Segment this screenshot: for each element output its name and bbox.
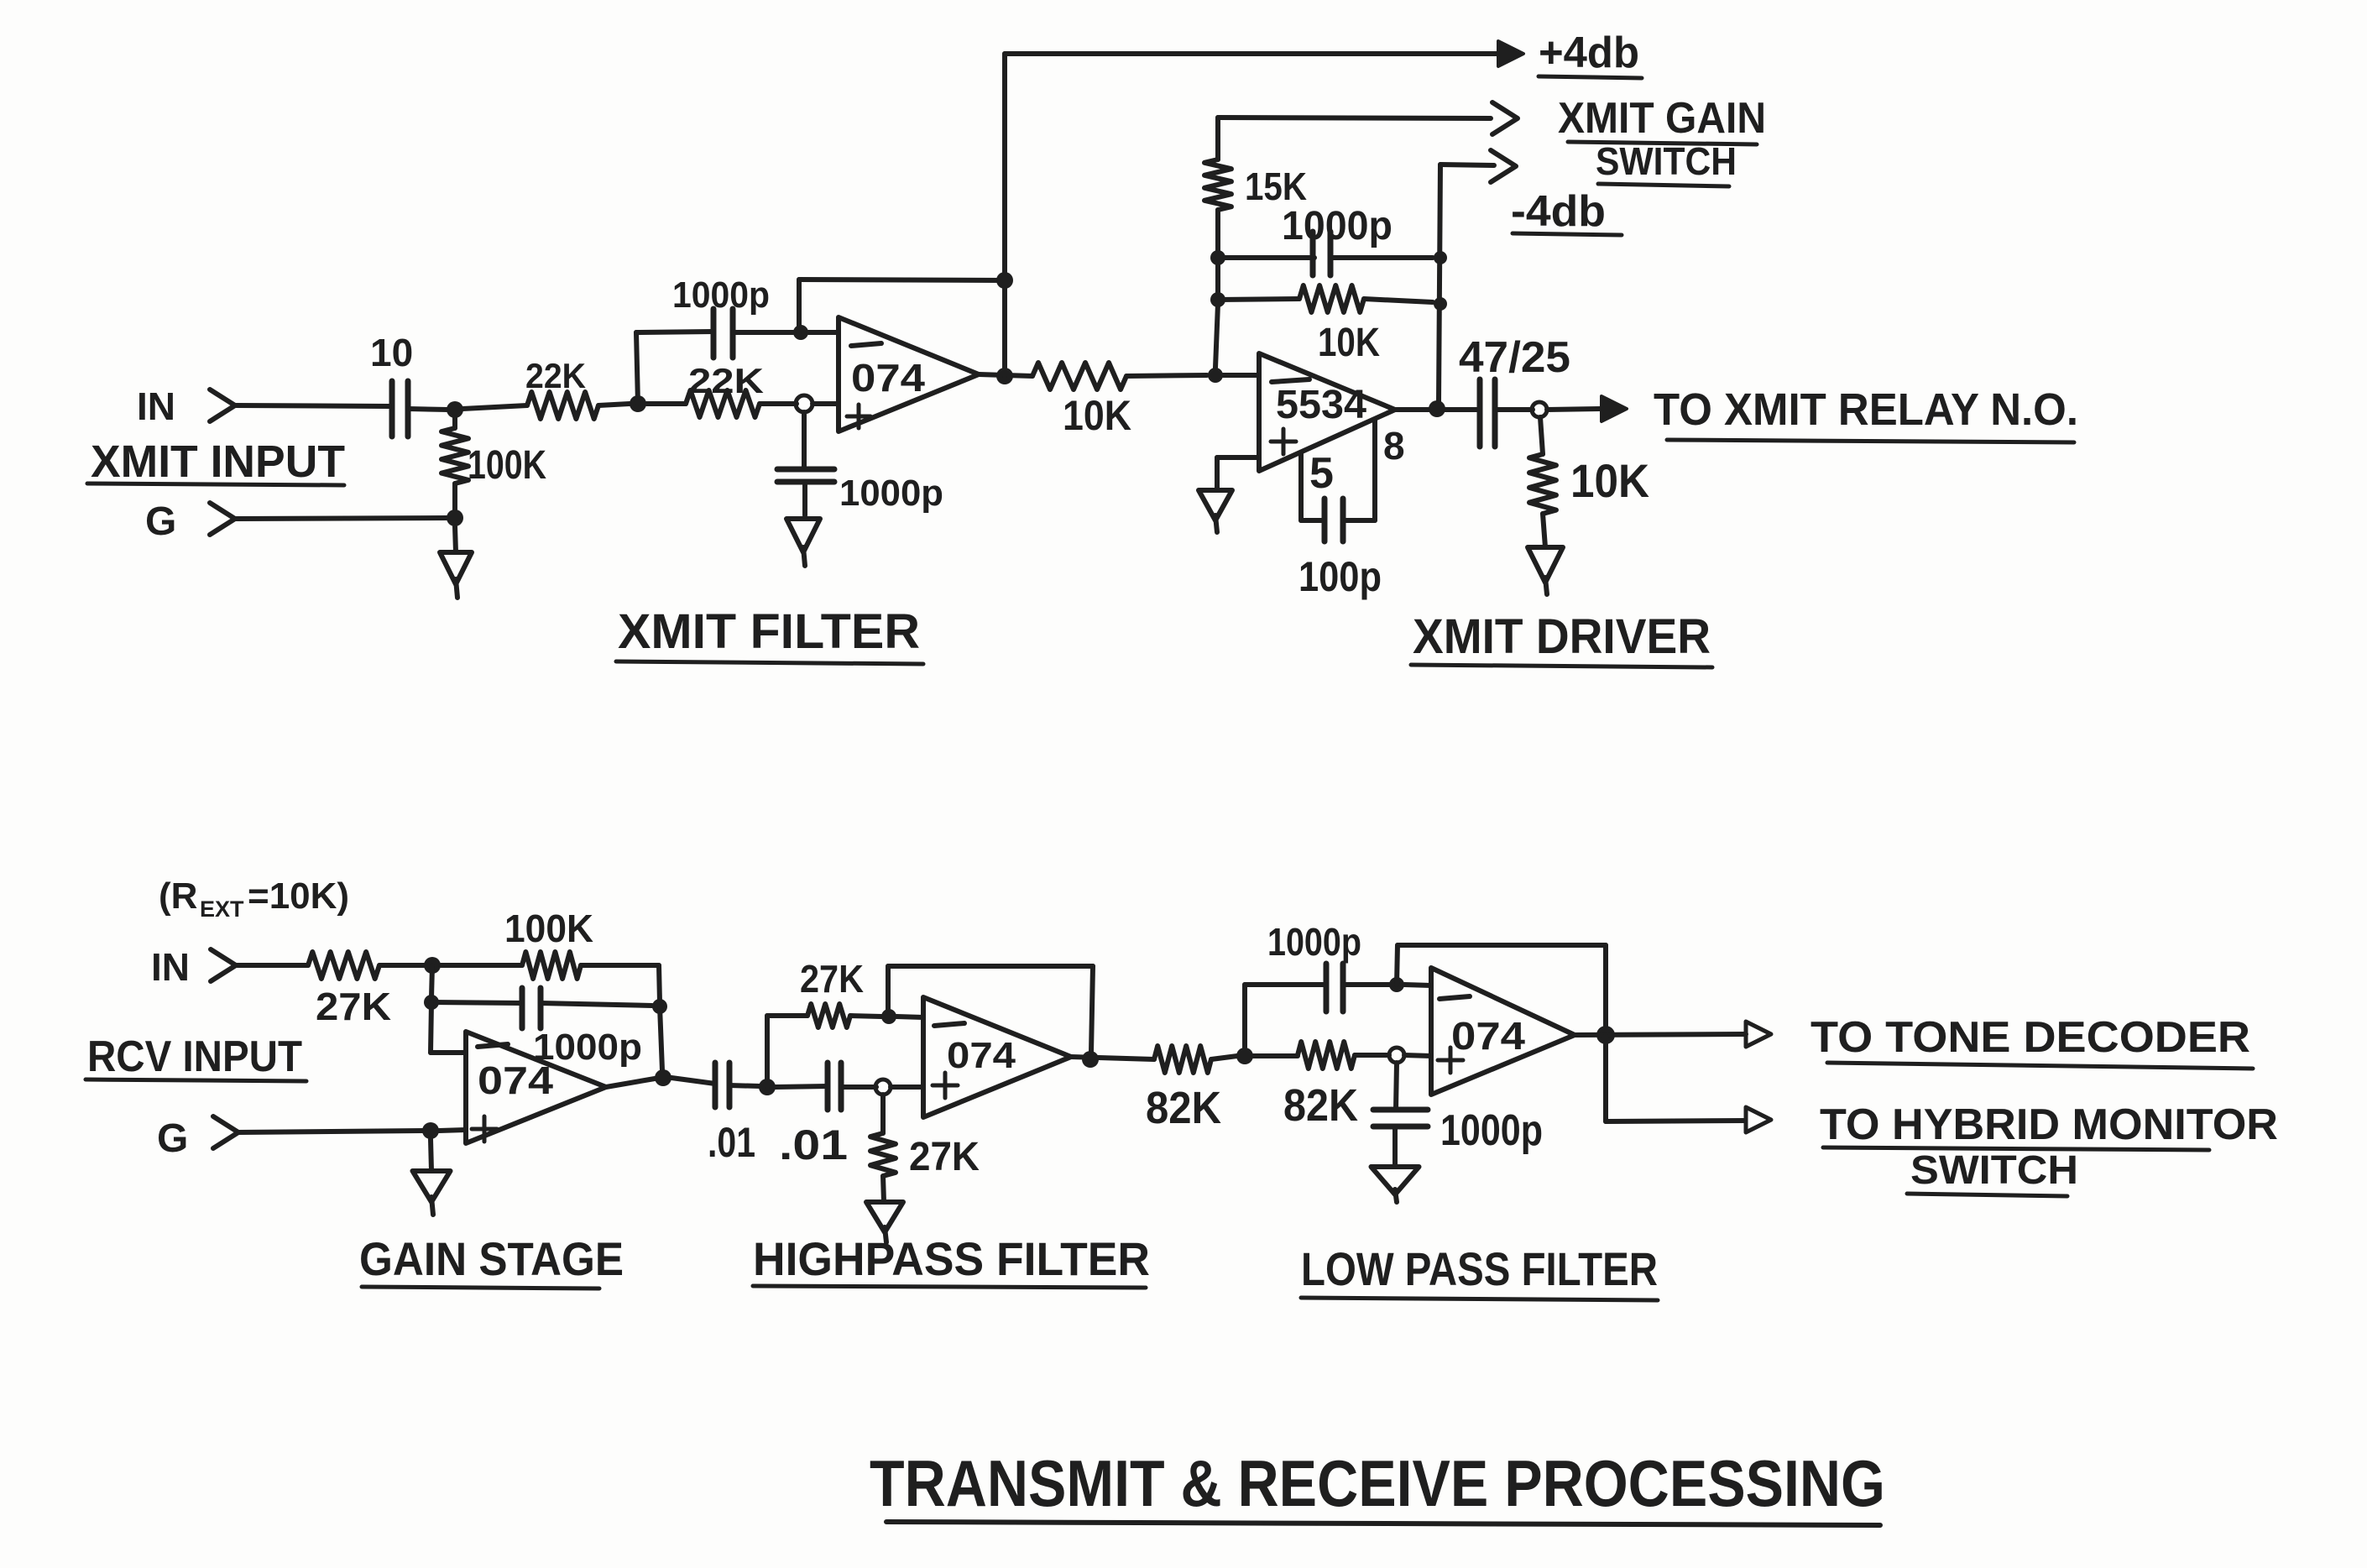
wire node AC down bbox=[1603, 1035, 1608, 1121]
wire node Y down to R10 bbox=[880, 1095, 886, 1133]
wire node R down to output bbox=[660, 1006, 662, 1070]
svg-text:27K: 27K bbox=[909, 1135, 980, 1179]
wire node G up (to R4/C4/R5) bbox=[1215, 304, 1218, 368]
resistor R11 82K bbox=[1154, 1046, 1211, 1073]
input arrow IN bbox=[210, 389, 235, 421]
wire node T down to U3 -in bbox=[431, 1002, 431, 1053]
wire to C10 bbox=[1245, 982, 1326, 987]
svg-text:8: 8 bbox=[1383, 424, 1405, 468]
title underline bbox=[886, 1522, 1880, 1525]
capacitor C2 1000p (feedback) bbox=[711, 309, 717, 358]
wire C8 to node V bbox=[729, 1085, 760, 1086]
input arrow IN (rcv) bbox=[211, 949, 236, 981]
wire fb top rail (U5) bbox=[1398, 943, 1606, 948]
wire R4 to node K bbox=[1364, 299, 1433, 302]
resistor R2b 100K (vertical) bbox=[442, 428, 468, 483]
node G (U2 - input junction) bbox=[1208, 368, 1223, 383]
wire C9 to node Y bbox=[841, 1085, 876, 1090]
wire node B up to C2 bbox=[636, 332, 638, 404]
resistor R9 27K (feedback) bbox=[807, 1004, 850, 1027]
svg-text:22K: 22K bbox=[525, 356, 586, 395]
ground (below node P) bbox=[440, 552, 472, 584]
resistor R5 15K (vertical) bbox=[1204, 159, 1231, 210]
node J (right fb rail / C4) bbox=[1434, 251, 1447, 264]
node Z (R11/R12/C10 junction) bbox=[1236, 1048, 1253, 1064]
wire R2 to node C bbox=[760, 401, 797, 406]
node A (junction C1/R1/R2-100K) bbox=[447, 401, 463, 418]
node X (U4 output) bbox=[1082, 1051, 1099, 1068]
wire C11 to ground bbox=[1393, 1129, 1398, 1167]
svg-text:10K: 10K bbox=[1570, 454, 1649, 507]
svg-text:TO HYBRID MONITOR: TO HYBRID MONITOR bbox=[1820, 1100, 2278, 1149]
node E (on U1 output riser) bbox=[996, 272, 1013, 289]
resistor R7 27K bbox=[308, 952, 379, 979]
ground (below node U) bbox=[413, 1171, 451, 1202]
U3 inverting input marker bbox=[478, 1044, 508, 1047]
wire to R9 bbox=[767, 1013, 807, 1018]
wire node C to U1 +in bbox=[813, 401, 839, 406]
wire R1 to node B bbox=[598, 404, 630, 405]
svg-text:XMIT GAIN: XMIT GAIN bbox=[1558, 94, 1766, 143]
svg-text:-4db: -4db bbox=[1511, 187, 1606, 236]
node T (C7 left) bbox=[424, 995, 439, 1010]
capacitor C10 1000p (U5 feedback) bbox=[1324, 964, 1330, 1011]
svg-text:15K: 15K bbox=[1245, 165, 1307, 208]
underline TO XMIT RELAY N.O. bbox=[1667, 440, 2074, 442]
svg-text:TO XMIT RELAY N.O.: TO XMIT RELAY N.O. bbox=[1654, 384, 2078, 435]
capacitor C4 1000p (U2 feedback) bbox=[1310, 232, 1316, 275]
underline SWITCH bbox=[1598, 184, 1729, 186]
svg-text:SWITCH: SWITCH bbox=[1910, 1148, 2078, 1193]
svg-text:(R: (R bbox=[159, 875, 197, 917]
svg-text:074: 074 bbox=[947, 1035, 1016, 1076]
arrow to -4db bbox=[1491, 150, 1516, 182]
wire node W up bbox=[886, 966, 891, 1017]
wire R7 to node Q bbox=[379, 963, 425, 968]
node U (U3 + input junction) bbox=[422, 1122, 439, 1139]
node Q (R7/R8/C7 junction) bbox=[424, 957, 441, 974]
wire C2 to node D bbox=[733, 330, 793, 335]
svg-text:EXT: EXT bbox=[200, 896, 244, 922]
capacitor C9 .01 (coupling) bbox=[825, 1063, 831, 1110]
node AB (U5 - input junction) bbox=[1389, 977, 1404, 992]
svg-text:1000p: 1000p bbox=[672, 274, 770, 316]
wire C10 to node AB bbox=[1343, 982, 1390, 987]
wire node N down to R6 bbox=[1540, 417, 1543, 454]
underline XMIT GAIN bbox=[1568, 142, 1757, 144]
svg-text:G: G bbox=[157, 1116, 188, 1161]
wire node I up to R5 bbox=[1215, 210, 1220, 250]
node Y (U4 + input junction) bbox=[875, 1079, 891, 1095]
underline TO HYBRID MONITOR bbox=[1823, 1147, 2209, 1150]
U5 inverting input marker bbox=[1440, 996, 1470, 999]
svg-text:XMIT FILTER: XMIT FILTER bbox=[618, 604, 920, 659]
node AC (U5 output) bbox=[1596, 1026, 1615, 1044]
svg-text:10K: 10K bbox=[1318, 321, 1380, 365]
wire IN to C1 bbox=[235, 405, 389, 406]
wire R11 to node Z bbox=[1211, 1056, 1237, 1059]
svg-text:SWITCH: SWITCH bbox=[1596, 139, 1737, 183]
svg-text:+4db: +4db bbox=[1539, 29, 1639, 77]
node B (junction R1/R2/C2) bbox=[630, 395, 646, 412]
svg-text:100K: 100K bbox=[468, 443, 546, 488]
svg-text:27K: 27K bbox=[316, 985, 391, 1028]
underline XMIT FILTER bbox=[616, 661, 923, 664]
svg-text:100K: 100K bbox=[504, 907, 593, 950]
wire right fb rail (vertical) bbox=[1439, 165, 1440, 402]
svg-text:5: 5 bbox=[1309, 449, 1334, 498]
wire fb top rail (U4) bbox=[888, 964, 1093, 969]
wire IN to R7 bbox=[236, 963, 308, 968]
ground (below R6) bbox=[1528, 547, 1563, 583]
wire +4db (horizontal) bbox=[1005, 51, 1502, 56]
node K (right fb rail / R4) bbox=[1434, 297, 1447, 311]
wire R2b to node P bbox=[452, 483, 457, 511]
wire to -4db arrow bbox=[1440, 165, 1494, 165]
wire node U to U3 +in bbox=[439, 1130, 466, 1131]
capacitor C11 1000p (to ground) bbox=[1373, 1107, 1428, 1113]
ground (U2 + input) bbox=[1199, 490, 1232, 520]
U2 pin 5 lead bbox=[1298, 452, 1304, 520]
arrow to XMIT GAIN SWITCH bbox=[1492, 102, 1518, 134]
arrow to hybrid monitor switch bbox=[1746, 1107, 1771, 1132]
op-amp U1 074 (XMIT filter) bbox=[839, 317, 979, 431]
wire U3 output bbox=[606, 1079, 655, 1087]
wire node AB to U5 -in bbox=[1404, 985, 1431, 985]
wire R6 to ground bbox=[1543, 514, 1545, 547]
ground (below C3) bbox=[786, 519, 820, 552]
wire fb right down (U5) bbox=[1603, 945, 1608, 1029]
svg-text:TO TONE DECODER: TO TONE DECODER bbox=[1811, 1013, 2250, 1062]
wire node Q down bbox=[431, 965, 432, 997]
wire C3 to ground bbox=[802, 485, 807, 515]
wire U2 +in to ground bbox=[1217, 455, 1259, 460]
node M (U2 out / fb rail) bbox=[1429, 400, 1445, 417]
wire node V up bbox=[765, 1016, 770, 1087]
U4 non-inverting marker + bbox=[933, 1084, 958, 1088]
underline XMIT INPUT bbox=[87, 483, 344, 485]
wire node A to R1 bbox=[462, 405, 527, 409]
node R (C7 right) bbox=[652, 999, 667, 1014]
capacitor C1 (10uF) bbox=[389, 381, 395, 436]
U1 inverting input marker bbox=[851, 343, 881, 346]
wire fb right down (U4) bbox=[1091, 966, 1093, 1053]
capacitor C3 1000p (to ground) bbox=[777, 467, 834, 473]
wire U4 output bbox=[1071, 1057, 1154, 1059]
resistor R10 27K (to ground) bbox=[870, 1133, 896, 1176]
node AA (U5 + input junction) bbox=[1389, 1048, 1404, 1063]
svg-text:1000p: 1000p bbox=[839, 473, 943, 514]
underline -4db bbox=[1513, 233, 1622, 235]
op-amp U2 5534 (XMIT driver) bbox=[1259, 353, 1395, 471]
U2 pin 8 lead bbox=[1372, 420, 1377, 520]
svg-text:HIGHPASS FILTER: HIGHPASS FILTER bbox=[753, 1232, 1150, 1285]
svg-text:.01: .01 bbox=[779, 1121, 848, 1168]
wire C6 to node N bbox=[1495, 407, 1533, 412]
svg-text:074: 074 bbox=[851, 356, 925, 400]
wire to XMIT GAIN SWITCH bbox=[1218, 118, 1491, 118]
node H (R4 left) bbox=[1210, 292, 1225, 307]
wire node N to relay arrow bbox=[1547, 409, 1600, 410]
svg-text:G: G bbox=[145, 499, 176, 544]
wire node A down to R2b bbox=[452, 417, 457, 428]
wire node V to C9 bbox=[776, 1086, 828, 1087]
node W (U4 - input junction) bbox=[881, 1009, 896, 1024]
underline +4db bbox=[1539, 76, 1642, 78]
wire G to node U bbox=[238, 1131, 423, 1132]
svg-text:=10K): =10K) bbox=[248, 875, 349, 917]
wire node Z up bbox=[1242, 985, 1247, 1048]
wire to C2 left plate bbox=[636, 332, 713, 332]
wire C1 to node A bbox=[408, 409, 448, 410]
wire node Z to R12 bbox=[1253, 1053, 1298, 1058]
capacitor C8 .01 (coupling) bbox=[713, 1063, 718, 1107]
svg-text:10: 10 bbox=[370, 331, 413, 374]
svg-text:1000p: 1000p bbox=[1440, 1106, 1543, 1155]
underline TO TONE DECODER bbox=[1827, 1063, 2253, 1069]
wire node H to R4 bbox=[1218, 299, 1299, 300]
svg-text:LOW PASS FILTER: LOW PASS FILTER bbox=[1301, 1242, 1658, 1295]
underline SWITCH (hybrid monitor) bbox=[1907, 1194, 2067, 1196]
capacitor C6 47/25 (output) bbox=[1477, 379, 1483, 447]
resistor R12 82K bbox=[1298, 1042, 1355, 1069]
svg-text:27K: 27K bbox=[800, 957, 864, 1001]
capacitor C5 100p (pins 5-8) bbox=[1322, 499, 1328, 541]
svg-text:RCV INPUT: RCV INPUT bbox=[87, 1032, 302, 1081]
svg-text:GAIN STAGE: GAIN STAGE bbox=[359, 1232, 624, 1285]
wire R9 to node W bbox=[850, 1016, 881, 1017]
arrow to XMIT relay bbox=[1602, 396, 1627, 421]
node D (U1 - input) bbox=[793, 325, 808, 340]
resistor R8 100K (feedback) bbox=[522, 952, 581, 979]
node I (C4 left) bbox=[1210, 250, 1225, 265]
wire node P to ground bbox=[455, 526, 456, 552]
svg-text:TRANSMIT & RECEIVE PROCESSING: TRANSMIT & RECEIVE PROCESSING bbox=[870, 1446, 1885, 1520]
wire G to node P bbox=[235, 518, 447, 519]
wire node G to U2 -in bbox=[1223, 373, 1259, 378]
op-amp U4 074 (high pass filter) bbox=[923, 997, 1071, 1117]
node S (U3 output) bbox=[655, 1069, 671, 1086]
wire node U down bbox=[431, 1139, 431, 1171]
wire R12 to node AA bbox=[1355, 1053, 1389, 1058]
wire U5 output to arrow bbox=[1575, 1034, 1746, 1035]
wire to hybrid monitor arrow bbox=[1606, 1121, 1744, 1121]
wire R5 up to gain switch line bbox=[1215, 118, 1220, 159]
input arrow G bbox=[210, 503, 235, 535]
svg-text:074: 074 bbox=[478, 1058, 553, 1102]
node V (C8/C9/R9 junction) bbox=[759, 1079, 776, 1095]
underline GAIN STAGE bbox=[362, 1287, 599, 1288]
wire R10 to ground bbox=[883, 1176, 884, 1202]
wire node B to R2 bbox=[646, 401, 686, 406]
node F (U1 out / riser) bbox=[996, 368, 1013, 384]
resistor R4 10K (feedback) bbox=[1299, 285, 1364, 312]
wire node S to C8 bbox=[671, 1078, 715, 1084]
wire node D up bbox=[797, 280, 802, 332]
U1 non-inverting marker + bbox=[847, 415, 870, 419]
arrow to +4db bbox=[1498, 41, 1523, 66]
wire node H up bbox=[1215, 264, 1220, 292]
wire node T to C7 bbox=[431, 1002, 522, 1003]
wire C7 to node R bbox=[541, 1003, 652, 1006]
svg-text:IN: IN bbox=[151, 945, 190, 989]
svg-text:47/25: 47/25 bbox=[1459, 333, 1570, 382]
node P (G rail junction) bbox=[447, 510, 463, 526]
ground (below R10) bbox=[866, 1202, 903, 1232]
wire node AA down to C11 bbox=[1396, 1063, 1397, 1110]
input arrow G (rcv) bbox=[213, 1116, 238, 1148]
underline LOW PASS FILTER bbox=[1301, 1298, 1658, 1300]
svg-text:.01: .01 bbox=[708, 1119, 755, 1166]
svg-text:IN: IN bbox=[137, 384, 175, 428]
node C (op-amp U1 + input) bbox=[796, 395, 813, 412]
underline RCV INPUT bbox=[86, 1079, 306, 1081]
node N (output divider) bbox=[1532, 402, 1547, 417]
wire node Y to U4 +in bbox=[891, 1085, 923, 1090]
U5 non-inverting marker + bbox=[1438, 1058, 1463, 1063]
U4 inverting input marker bbox=[934, 1023, 964, 1026]
svg-text:5534: 5534 bbox=[1276, 383, 1366, 427]
wire feedback to node E bbox=[799, 280, 1005, 280]
svg-text:XMIT DRIVER: XMIT DRIVER bbox=[1413, 609, 1711, 664]
resistor R3 10K bbox=[1032, 363, 1126, 389]
wire node D to U1 -in bbox=[808, 330, 839, 335]
wire node Q to R8 bbox=[441, 963, 522, 968]
wire fb right (vertical) bbox=[659, 965, 660, 1002]
U3 non-inverting marker + bbox=[472, 1127, 497, 1132]
wire C5 to pin8 bbox=[1343, 518, 1375, 523]
underline XMIT DRIVER bbox=[1411, 665, 1712, 667]
resistor R6 10K (to ground) bbox=[1529, 454, 1556, 514]
svg-text:82K: 82K bbox=[1146, 1083, 1221, 1133]
arrow to tone decoder bbox=[1746, 1022, 1771, 1047]
svg-text:074: 074 bbox=[1451, 1014, 1525, 1058]
wire riser +4db (vertical) bbox=[1002, 54, 1007, 376]
wire C4 to node J bbox=[1331, 255, 1433, 260]
svg-text:1000p: 1000p bbox=[1282, 204, 1393, 248]
U2 non-inverting marker + bbox=[1271, 440, 1296, 444]
svg-text:XMIT INPUT: XMIT INPUT bbox=[91, 436, 345, 487]
U2 label 5534 overline (inverting marker) bbox=[1272, 379, 1309, 382]
underline HIGHPASS FILTER bbox=[753, 1286, 1146, 1288]
svg-text:82K: 82K bbox=[1283, 1080, 1358, 1131]
wire R8 to corner bbox=[581, 963, 659, 968]
wire R3 to node G bbox=[1126, 375, 1207, 376]
svg-text:100p: 100p bbox=[1298, 553, 1382, 600]
ground (below C11) bbox=[1372, 1167, 1419, 1194]
op-amp U5 074 (low pass filter) bbox=[1431, 968, 1575, 1095]
wire pin5 to C5 bbox=[1301, 518, 1325, 523]
wire node AA to U5 +in bbox=[1404, 1055, 1431, 1056]
wire node W to U4 -in bbox=[896, 1017, 923, 1017]
wire node C down to C3 bbox=[802, 412, 807, 468]
wire node AB up bbox=[1397, 945, 1398, 985]
wire U2 output bbox=[1395, 407, 1480, 412]
svg-text:1000p: 1000p bbox=[1267, 920, 1361, 964]
wire U1 output bbox=[979, 374, 1032, 376]
wire node I to C4 bbox=[1218, 255, 1314, 260]
svg-text:10K: 10K bbox=[1063, 392, 1131, 439]
resistor R2 22K bbox=[686, 390, 760, 417]
resistor R1 22K bbox=[527, 392, 598, 419]
op-amp U3 074 (gain stage) bbox=[466, 1032, 606, 1143]
capacitor C7 1000p (U3 feedback) bbox=[520, 988, 525, 1028]
